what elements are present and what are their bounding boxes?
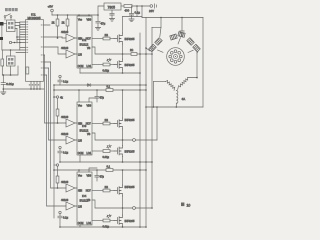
wire output phase C xyxy=(92,200,133,208)
capacitor C9 0.1u xyxy=(58,211,62,227)
node dot xyxy=(14,42,16,44)
svg-text:LIN: LIN xyxy=(78,53,82,56)
buffer U4b 40106 xyxy=(66,202,75,210)
wire x46.5 to stage3 buf2 xyxy=(47,75,67,206)
wire box1 to bus xyxy=(15,23,20,29)
svg-text:HIN: HIN xyxy=(78,37,82,40)
node dots xyxy=(145,106,147,228)
brush symbol cap xyxy=(180,31,184,36)
resistor Rg6 2ohm xyxy=(103,219,110,222)
wire inner link to left brush xyxy=(160,27,161,37)
wire buffer outputs to IC4 xyxy=(75,188,77,206)
node dot xyxy=(156,106,158,108)
wire Q2 drain to output node xyxy=(122,54,124,59)
IC1 pin number ticks right column xyxy=(41,24,43,75)
wire Q6 drain to output node xyxy=(122,208,124,215)
op IC2 IR2112 xyxy=(77,16,92,68)
motor hall sensors xyxy=(169,50,182,63)
diode D2 on return bus xyxy=(86,84,91,87)
wire drop to inner link xyxy=(152,18,161,28)
node dot xyxy=(97,14,99,16)
wire gate xyxy=(110,64,114,66)
wire x48.5 to stage2 buf2 xyxy=(49,68,67,140)
wire rail x146 xyxy=(145,18,147,228)
wire bottom bus of IC1 xyxy=(3,88,44,90)
buffer U2b 40106 xyxy=(66,50,75,58)
node dot xyxy=(53,96,55,98)
ground G2 xyxy=(95,28,100,31)
transistor Q2 IRF3205 xyxy=(114,59,123,70)
svg-text:7805: 7805 xyxy=(108,5,116,9)
regulator U5 7805 xyxy=(104,3,121,10)
wire 5V bus xyxy=(52,14,98,16)
capacitor C4 0.1u xyxy=(129,6,133,19)
resistor R7 xyxy=(56,98,59,123)
svg-text:IR2112: IR2112 xyxy=(80,129,89,133)
svg-text:40106: 40106 xyxy=(61,198,69,202)
wire jog buffer1 input xyxy=(62,37,66,38)
node dots xyxy=(53,89,147,91)
node dot xyxy=(57,122,59,124)
wire buffer outputs to IC2 xyxy=(75,38,77,54)
terminal Vcc2 xyxy=(56,96,58,98)
wire Q5 drain riser xyxy=(122,170,124,185)
node dots bottom bus xyxy=(3,88,41,90)
switch S1 xyxy=(4,14,12,20)
node dots top bus xyxy=(160,17,183,19)
brush group top xyxy=(170,32,185,40)
resistor R3 1k xyxy=(56,15,59,38)
node dots xyxy=(122,226,141,228)
op IC3 IR2112 xyxy=(77,102,92,155)
wire IC4 VB stub xyxy=(89,168,97,172)
svg-text:IRF3205: IRF3205 xyxy=(125,185,136,189)
svg-text:VS: VS xyxy=(87,133,91,136)
svg-text:COM: COM xyxy=(78,65,84,68)
svg-text:0.01μ: 0.01μ xyxy=(6,82,14,86)
wire riser to top bus xyxy=(141,6,143,18)
svg-text:2Ω: 2Ω xyxy=(130,49,133,52)
svg-text:40106: 40106 xyxy=(61,30,69,34)
node dot xyxy=(57,187,59,189)
wire Q1 source to output xyxy=(122,44,124,54)
wire Q3 source to output xyxy=(122,129,124,140)
svg-text:40106: 40106 xyxy=(61,180,69,184)
svg-text:0.1μ: 0.1μ xyxy=(63,216,69,220)
wire stage2 lower bus xyxy=(60,161,152,163)
pin labels IC4 xyxy=(78,175,92,225)
transistor Q5 IRF3205 xyxy=(114,185,123,196)
motor M1 body xyxy=(167,48,185,66)
resistor R8 xyxy=(56,166,59,188)
wire coil to bus xyxy=(175,103,177,107)
wire box2 top xyxy=(10,50,12,56)
node dot xyxy=(10,49,12,51)
pin labels IC3 xyxy=(78,105,92,155)
brush group upper-right xyxy=(187,38,200,52)
capacitor C5 0.1u xyxy=(58,75,62,85)
wire left rail down xyxy=(2,26,20,51)
node dot xyxy=(145,47,147,49)
node dot xyxy=(122,139,124,141)
svg-text:2Ω: 2Ω xyxy=(105,118,108,122)
buffer U2a 40106 xyxy=(66,34,75,42)
ground G4 xyxy=(129,19,134,22)
node dot xyxy=(122,53,124,55)
wire stage1 lower bus xyxy=(80,72,140,74)
svg-text:HO7: HO7 xyxy=(86,37,92,40)
wire terminal feed xyxy=(54,96,56,98)
terminal +5V xyxy=(51,9,54,12)
svg-text:0.1: 0.1 xyxy=(107,85,111,89)
node dots xyxy=(122,161,147,163)
wire Q6 source down xyxy=(122,226,124,227)
resistor R4 1k xyxy=(66,15,69,31)
terminal phase C xyxy=(133,207,136,210)
node dots xyxy=(122,72,141,74)
IC1 bottom pin digits xyxy=(29,84,39,86)
svg-text:HO7: HO7 xyxy=(86,122,92,125)
wire left winding feeder xyxy=(153,82,155,108)
wire stage3 lower bus xyxy=(60,226,146,228)
wire left arm lead xyxy=(154,81,166,83)
svg-text:0.1: 0.1 xyxy=(107,165,111,169)
box 调速控制 (speed box) xyxy=(7,56,16,66)
wire gate xyxy=(110,150,114,152)
svg-text:HO7: HO7 xyxy=(86,189,92,192)
resistor R6 400 xyxy=(124,5,150,8)
svg-text:LO1: LO1 xyxy=(87,65,92,68)
wire IC2 Vcc stub xyxy=(78,15,80,16)
transistor Q3 IRF3205 xyxy=(114,118,123,129)
wire bottom of box2 xyxy=(2,66,18,75)
node dot xyxy=(59,226,61,228)
svg-text:VB8: VB8 xyxy=(87,175,92,178)
transistor Q4 IRF3205 xyxy=(114,146,123,157)
svg-text:HIN: HIN xyxy=(78,122,82,125)
ground G1 xyxy=(1,89,6,95)
terminal Vcc3 xyxy=(56,164,58,166)
wire IC2 COM drop xyxy=(79,68,81,73)
wire xyxy=(12,42,20,44)
motor shaft dot xyxy=(175,56,176,57)
wire drop to top brush xyxy=(181,18,183,32)
wire sub bus y16 xyxy=(123,16,143,18)
resistor Rg3 2ohm xyxy=(103,122,110,125)
brush group upper-left xyxy=(149,38,162,52)
wire 7805 output xyxy=(121,5,124,7)
wire IC1 left pin stubs xyxy=(17,22,26,40)
wire gate xyxy=(110,38,114,40)
node dot xyxy=(10,74,12,76)
svg-text:0.01μ: 0.01μ xyxy=(103,225,110,229)
transistor Q6 IRF3205 xyxy=(114,215,123,226)
wire right border xyxy=(202,18,204,108)
svg-text:0.01μ: 0.01μ xyxy=(103,69,110,73)
resistor Rg5 2ohm xyxy=(103,189,110,192)
svg-text:LO1: LO1 xyxy=(87,152,92,155)
svg-text:0.1μ: 0.1μ xyxy=(63,80,69,84)
wire brush to rim ticks xyxy=(158,38,194,53)
node dots on feeders xyxy=(16,26,20,43)
pin labels IC2 xyxy=(78,19,92,68)
wire Q3 drain riser xyxy=(122,90,124,118)
wire gate xyxy=(110,220,114,222)
svg-text:10: 10 xyxy=(187,203,191,207)
box 正反转控制 (direction box) xyxy=(7,20,16,32)
wire output to rail xyxy=(137,53,152,55)
svg-text:VB8: VB8 xyxy=(87,19,92,22)
wire left rail xyxy=(53,85,55,218)
IC1 bottom pin stubs xyxy=(31,81,40,89)
IC1 pin number ticks left column xyxy=(26,21,28,53)
node dot xyxy=(122,207,124,209)
resistor Rg1 2ohm xyxy=(103,37,110,40)
diode D3 xyxy=(106,144,112,148)
resistor Rg2 2ohm xyxy=(103,63,110,66)
wire IC2 LO to gate xyxy=(92,64,103,66)
buffer U4a 40106 xyxy=(66,184,75,192)
wire output phase B xyxy=(92,133,133,140)
svg-text:VS: VS xyxy=(87,47,91,50)
svg-text:IRF3205: IRF3205 xyxy=(125,63,136,67)
wire stage1 buffer2 input xyxy=(58,47,66,54)
node dot xyxy=(153,106,155,108)
wire right arm lead xyxy=(188,78,198,81)
svg-text:40106: 40106 xyxy=(61,115,69,119)
buffer U3b 40106 xyxy=(66,136,75,144)
resistor Rg4 2ohm xyxy=(103,150,110,153)
connector 24V battery xyxy=(150,4,157,8)
svg-text:400: 400 xyxy=(125,8,130,12)
wire IC3 COM drop xyxy=(79,155,81,162)
diode D1 xyxy=(106,58,112,62)
wire stage2 vcc bus xyxy=(54,89,146,91)
node dots xyxy=(53,84,147,86)
wire Q4 source down xyxy=(122,157,124,163)
IC1 MC33035 xyxy=(26,20,44,82)
wire vertical feeders xyxy=(17,23,20,51)
wire buffer outputs to IC3 xyxy=(75,123,77,140)
ground G3 xyxy=(109,19,114,22)
wire Q2 source down xyxy=(122,70,124,73)
wire Q5 source to output xyxy=(122,196,124,208)
wire IC2 HO to gate xyxy=(92,38,103,40)
transistor Q1 IRF3205 xyxy=(114,33,123,44)
wire 5V riser to 7805 xyxy=(98,6,104,15)
wire right brush riser xyxy=(196,52,198,78)
svg-text:MC33035: MC33035 xyxy=(28,16,41,20)
wire x137 drop xyxy=(136,6,138,17)
capacitor C1 0.01u xyxy=(1,75,5,89)
svg-text:HIN: HIN xyxy=(78,189,82,192)
wire IC4 LO to gate xyxy=(92,220,103,222)
wire IC2 VB stub xyxy=(88,15,90,16)
wire terminal to 5V bus xyxy=(51,12,53,15)
resistor Rs2 inline xyxy=(106,89,113,92)
resistor Rs3 inline xyxy=(106,169,113,172)
svg-text:2Ω: 2Ω xyxy=(105,185,108,189)
diode D4 xyxy=(106,214,112,218)
node dots 24V line xyxy=(136,5,143,7)
winding vertical coil xyxy=(176,91,178,104)
wire ground rail x140 xyxy=(139,33,141,227)
wire IC3 VB stub xyxy=(89,98,97,102)
svg-text:47μ: 47μ xyxy=(101,22,106,26)
wire IC4 Vcc stub xyxy=(78,170,80,172)
wire terminal feed xyxy=(54,164,56,166)
node dots xyxy=(53,169,147,171)
svg-text:24V: 24V xyxy=(149,9,154,13)
node dot xyxy=(59,161,61,163)
svg-text:IR2112: IR2112 xyxy=(80,43,89,47)
wire stage3 vcc bus xyxy=(54,169,146,171)
node dot xyxy=(3,74,5,76)
wire Q4 drain to output node xyxy=(122,140,124,146)
wire xyxy=(4,23,7,25)
svg-text:IRF3205: IRF3205 xyxy=(125,37,136,41)
svg-text:COM: COM xyxy=(78,222,84,225)
wire phase B riser x157 xyxy=(156,107,158,140)
node dots xyxy=(139,53,153,209)
svg-text:0.01μ: 0.01μ xyxy=(103,155,110,159)
terminal phase B xyxy=(133,139,136,142)
svg-text:IRF3205: IRF3205 xyxy=(125,150,136,154)
wire 24V top bus xyxy=(142,17,203,19)
wire stage1 return bus xyxy=(54,84,146,86)
svg-text:47μ: 47μ xyxy=(100,96,105,100)
capacitor C3 under 7805 xyxy=(110,10,114,19)
IC1 right pin stubs xyxy=(44,25,63,75)
svg-text:VB8: VB8 xyxy=(87,105,92,108)
wire output to riser xyxy=(135,207,152,209)
wire IC3 Vcc stub xyxy=(78,90,80,102)
svg-text:+5V: +5V xyxy=(48,5,53,9)
wire gate xyxy=(110,123,114,125)
wire IC4 HO to gate xyxy=(92,190,103,192)
svg-text:40106: 40106 xyxy=(61,46,69,50)
terminal T1 xyxy=(9,41,11,43)
capacitor C7 47u xyxy=(95,170,99,181)
svg-text:0.1μ: 0.1μ xyxy=(135,11,141,15)
winding arm left xyxy=(166,80,175,90)
wire brush leads xyxy=(146,48,198,53)
node dot xyxy=(57,37,59,39)
wire x44.5 to stage2 buf1 xyxy=(45,55,67,123)
winding arm right xyxy=(178,79,188,90)
svg-text:IRF3205: IRF3205 xyxy=(125,118,136,122)
resistor inside lower-left of IC1 xyxy=(26,67,29,74)
connector blob J2 xyxy=(0,37,3,40)
wire output phase A xyxy=(92,47,131,54)
connector blob J1 xyxy=(0,22,4,26)
node dot xyxy=(176,106,178,108)
svg-text:LO1: LO1 xyxy=(87,222,92,225)
capacitor C2 47u xyxy=(96,15,100,28)
svg-text:LIN: LIN xyxy=(78,205,82,208)
wire Q1 drain riser xyxy=(122,17,124,34)
svg-text:COM: COM xyxy=(78,152,84,155)
wire gate xyxy=(110,190,114,192)
buffer U3a 40106 xyxy=(66,119,75,127)
svg-text:2Ω: 2Ω xyxy=(105,33,108,37)
wire IC3 HO to gate xyxy=(92,123,103,125)
wire x50.5 to stage3 buf1 xyxy=(51,62,67,188)
svg-text:LIN: LIN xyxy=(78,139,82,142)
svg-text:40106: 40106 xyxy=(61,132,69,136)
wire output to riser xyxy=(135,139,157,141)
node dots on 5V bus xyxy=(57,14,90,16)
capacitor C8 0.1u xyxy=(58,146,62,162)
wire motor bottom bus xyxy=(146,106,203,108)
svg-text:IRF3205: IRF3205 xyxy=(125,219,136,223)
svg-text:IC4: IC4 xyxy=(82,194,87,198)
node dot xyxy=(196,77,198,79)
svg-text:4A: 4A xyxy=(182,97,186,101)
wire IC4 COM drop xyxy=(79,225,81,227)
svg-text:0.1μ: 0.1μ xyxy=(63,151,69,155)
label figure 10 xyxy=(181,203,190,208)
capacitor C6 47u xyxy=(95,90,99,102)
resistor Ro1 xyxy=(131,53,137,56)
svg-text:47μ: 47μ xyxy=(100,175,105,179)
resistor R2 4.7k xyxy=(1,50,4,75)
label 转向开关 (direction switch caption, greeked) xyxy=(5,8,18,11)
wire rail x152 xyxy=(151,27,153,208)
wire IC3 LO to gate xyxy=(92,150,103,152)
op IC4 IR2112 xyxy=(77,172,92,225)
svg-text:VS: VS xyxy=(87,199,91,202)
